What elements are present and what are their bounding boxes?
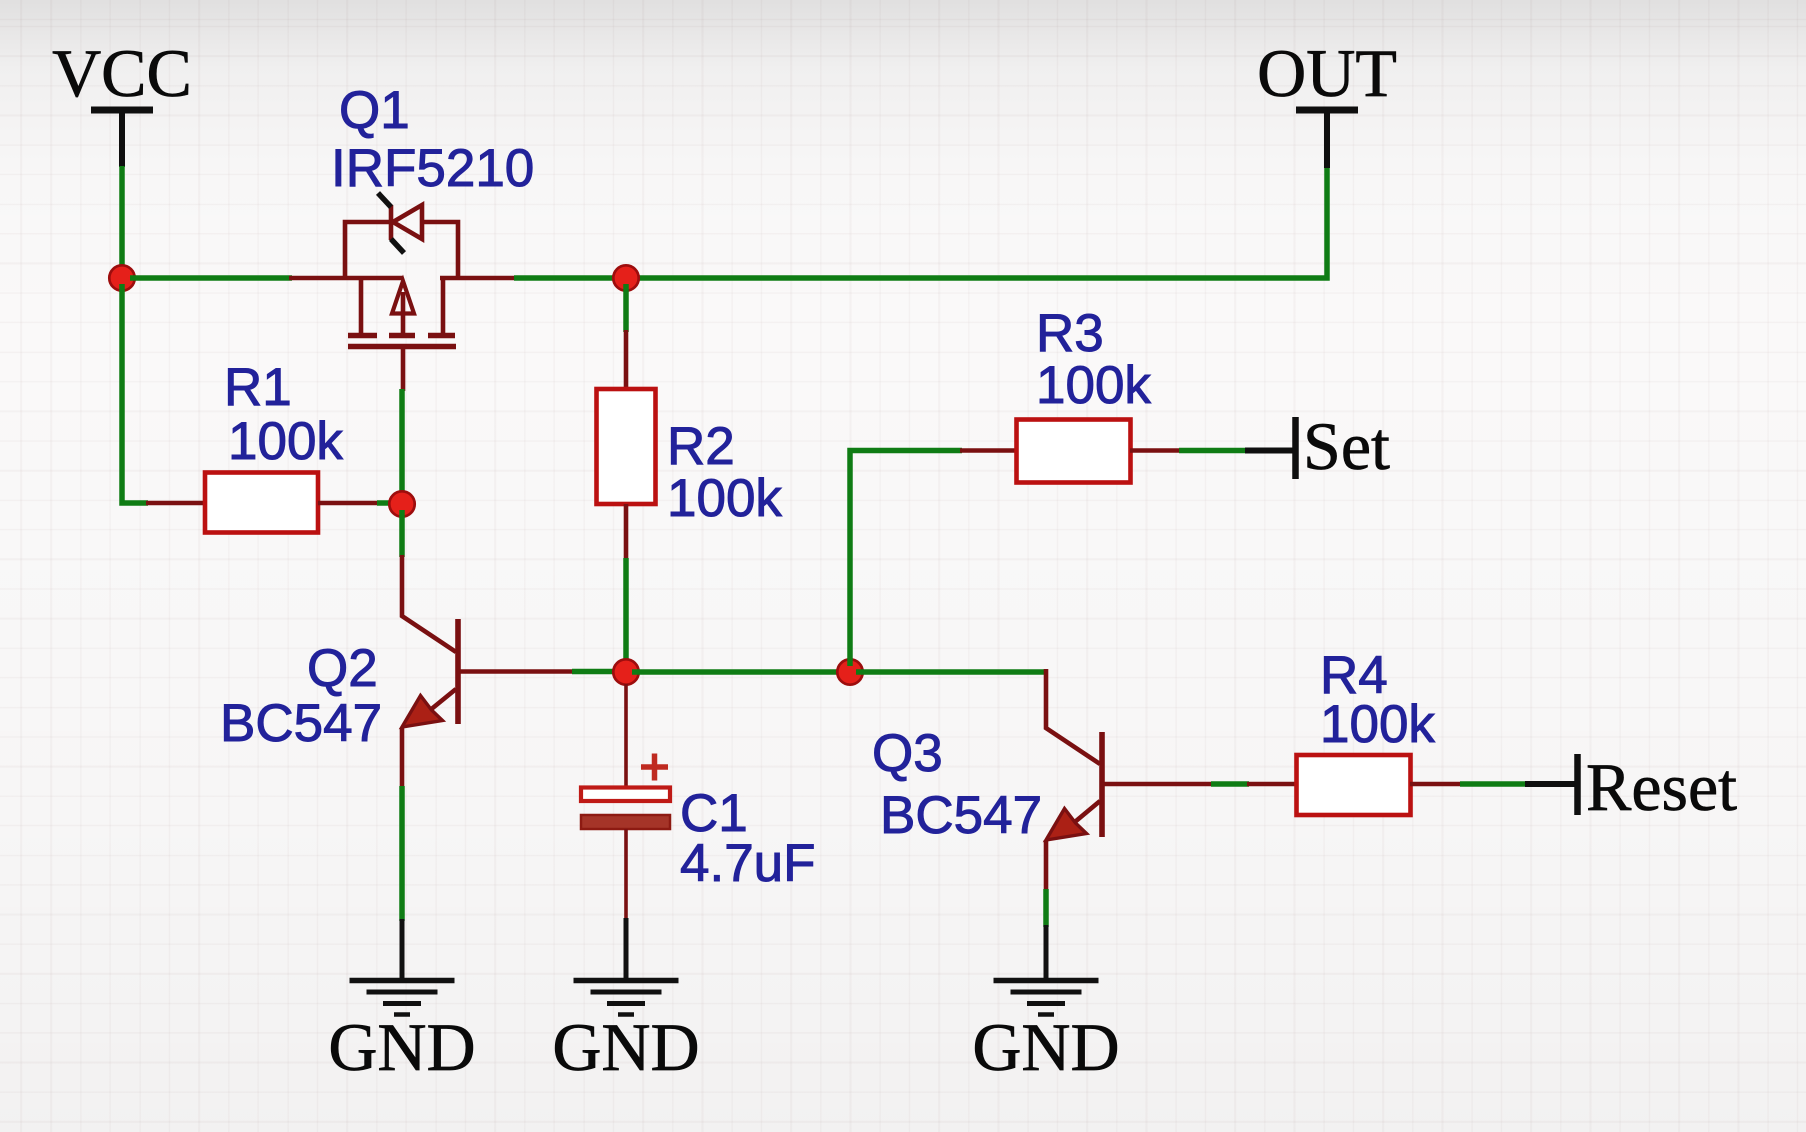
wire VCC to Q1 source bbox=[130, 275, 292, 281]
svg-text:IRF5210: IRF5210 bbox=[331, 139, 534, 198]
svg-text:Q3: Q3 bbox=[872, 724, 943, 783]
label R1 bbox=[224, 358, 292, 417]
wire node B to R2 bbox=[623, 284, 629, 332]
label Q1 bbox=[339, 81, 410, 140]
value BC547 (Q2) bbox=[220, 694, 382, 753]
transistor Q2 (BC547 NPN) bbox=[402, 555, 574, 788]
node junction D (base node) bbox=[613, 659, 638, 684]
plus sign of C1 bbox=[641, 754, 668, 781]
value 100k (R1) bbox=[228, 412, 343, 471]
wire R2 to node D bbox=[623, 558, 629, 666]
node junction C (gate/R1/Q2 collector) bbox=[389, 491, 414, 516]
resistor R4 bbox=[1247, 755, 1462, 815]
node junction B (drain / R2) bbox=[613, 265, 638, 290]
wire Q3 emitter to GND bbox=[1043, 889, 1049, 927]
label Q2 bbox=[307, 639, 378, 698]
svg-text:Q1: Q1 bbox=[339, 81, 410, 140]
label Q3 bbox=[872, 724, 943, 783]
value 100k (R3) bbox=[1036, 356, 1151, 415]
wire top rail (drain to OUT) bbox=[514, 166, 1327, 278]
wire R3 to Set port bbox=[1179, 448, 1247, 454]
resistor R2 bbox=[597, 330, 656, 560]
port symbol OUT bbox=[1296, 110, 1358, 168]
svg-text:R3: R3 bbox=[1036, 304, 1104, 363]
svg-text:R2: R2 bbox=[667, 417, 735, 476]
svg-text:VCC: VCC bbox=[52, 35, 192, 111]
value 4.7uF bbox=[680, 834, 816, 893]
svg-text:4.7uF: 4.7uF bbox=[680, 834, 816, 893]
port symbol Set bbox=[1245, 417, 1296, 479]
emitter arrow of Q3 bbox=[1046, 809, 1087, 841]
value 100k (R2) bbox=[667, 469, 782, 528]
svg-text:GND: GND bbox=[972, 1009, 1119, 1085]
value IRF5210 bbox=[331, 139, 534, 198]
C1 positive lead bbox=[624, 684, 628, 790]
ground GND3 (Q3 emitter) bbox=[994, 925, 1099, 1015]
node junction A (VCC rail) bbox=[109, 265, 134, 290]
node junction E (latch node) bbox=[837, 659, 862, 684]
svg-text:BC547: BC547 bbox=[220, 694, 382, 753]
ground GND1 (Q2 emitter) bbox=[350, 919, 455, 1015]
capacitor C1 top plate bbox=[581, 788, 670, 802]
label R3 bbox=[1036, 304, 1104, 363]
emitter arrow of Q2 bbox=[402, 696, 443, 728]
svg-text:Reset: Reset bbox=[1586, 749, 1737, 825]
net label GND (under Q2) bbox=[328, 1009, 475, 1085]
capacitor C1 bottom plate bbox=[581, 815, 670, 829]
wire R1 left vertical bbox=[122, 284, 148, 503]
wire node D to node E bbox=[632, 669, 850, 675]
net label GND (under Q3) bbox=[972, 1009, 1119, 1085]
resistor R1 bbox=[146, 473, 392, 533]
wire R4 to Reset port bbox=[1460, 781, 1527, 787]
label R4 bbox=[1320, 646, 1388, 705]
label C1 bbox=[680, 784, 748, 843]
wire node E up to R3 bbox=[850, 451, 962, 667]
svg-text:100k: 100k bbox=[228, 412, 343, 471]
transistor Q3 (BC547 NPN) bbox=[1046, 669, 1213, 891]
svg-text:GND: GND bbox=[552, 1009, 699, 1085]
wire VCC vertical bbox=[119, 166, 125, 272]
net label GND (under C1) bbox=[552, 1009, 699, 1085]
transistor Q1 (IRF5210 P-MOSFET) bbox=[289, 205, 516, 391]
wire Q2 base to node D bbox=[572, 669, 618, 675]
zener tick marks on Q1 body diode (black) bbox=[378, 193, 404, 253]
svg-text:R1: R1 bbox=[224, 358, 292, 417]
resistor R3 bbox=[960, 420, 1181, 483]
svg-text:100k: 100k bbox=[667, 469, 782, 528]
wire Q3 base to R4 bbox=[1211, 781, 1249, 787]
svg-text:100k: 100k bbox=[1320, 695, 1435, 754]
svg-text:BC547: BC547 bbox=[880, 786, 1042, 845]
wire Q1 gate to node C bbox=[399, 389, 405, 494]
wire node E to Q3 collector corner bbox=[856, 669, 1046, 675]
net label OUT bbox=[1257, 35, 1397, 111]
value 100k (R4) bbox=[1320, 695, 1435, 754]
svg-text:Set: Set bbox=[1303, 408, 1390, 484]
svg-text:100k: 100k bbox=[1036, 356, 1151, 415]
value BC547 (Q3) bbox=[880, 786, 1042, 845]
svg-text:GND: GND bbox=[328, 1009, 475, 1085]
net label Set bbox=[1303, 408, 1390, 484]
svg-text:OUT: OUT bbox=[1257, 35, 1397, 111]
ground GND2 (C1) bbox=[574, 918, 679, 1015]
net label VCC bbox=[52, 35, 192, 111]
port symbol Reset bbox=[1525, 754, 1578, 815]
C1 negative lead bbox=[624, 829, 628, 920]
net label Reset bbox=[1586, 749, 1737, 825]
wire Q2 emitter to GND bbox=[399, 786, 405, 921]
svg-text:Q2: Q2 bbox=[307, 639, 378, 698]
label R2 bbox=[667, 417, 735, 476]
port symbol VCC bbox=[91, 110, 153, 167]
wire node C to Q2 collector bbox=[399, 510, 405, 557]
